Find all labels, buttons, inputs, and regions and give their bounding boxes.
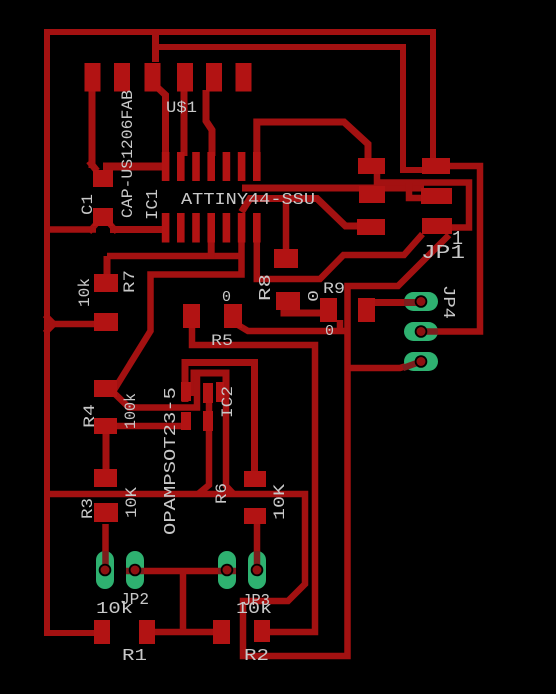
wire IC2 pad to mid rail elbow bbox=[198, 400, 210, 495]
wire C1 top pad to IC1 pin1 bbox=[103, 163, 167, 171]
wire R4 bottom to R3 top bbox=[103, 434, 110, 469]
connector JP4 pad3 bbox=[404, 352, 438, 371]
svg-text:R2: R2 bbox=[244, 647, 269, 666]
wire JP1 top-left pad around to bottom-right pad bbox=[377, 172, 469, 228]
svg-text:R3: R3 bbox=[79, 498, 97, 519]
pad IC2 pin4 bbox=[181, 412, 191, 430]
svg-text:R9: R9 bbox=[323, 280, 345, 298]
pad IC2 pin2 bbox=[203, 383, 213, 403]
pad U$1 pin3 bbox=[145, 63, 161, 92]
svg-text:R1: R1 bbox=[122, 647, 147, 666]
wire branch to JP4 pin3 bbox=[347, 362, 421, 369]
pad U$1 pin5 bbox=[206, 63, 222, 92]
svg-text:0: 0 bbox=[325, 323, 334, 340]
resistor R6 top pad bbox=[244, 471, 266, 487]
pad U$1 pin4 bbox=[177, 63, 193, 92]
svg-text:10k: 10k bbox=[76, 278, 94, 307]
svg-text:R4: R4 bbox=[81, 404, 99, 428]
drill JP2 pad2 bbox=[129, 564, 142, 577]
pad IC1 pin12 (bottom row) bbox=[192, 213, 200, 243]
resistor R2 left pad bbox=[213, 620, 230, 644]
svg-text:1: 1 bbox=[452, 228, 463, 250]
resistor R1 right pad bbox=[139, 620, 155, 644]
wire R3 bottom to JP2 pin1 bbox=[102, 524, 109, 570]
svg-text:R6: R6 bbox=[213, 483, 231, 504]
wire into JP3 pad2 bbox=[254, 551, 261, 570]
pad JP1 middle-left bbox=[359, 186, 385, 203]
wire U$1 pad4 down to IC1 pin2 bbox=[181, 90, 188, 156]
resistor R8 top pad bbox=[274, 249, 298, 268]
svg-text:C1: C1 bbox=[79, 194, 97, 215]
connector JP3 pad2 bbox=[248, 551, 266, 589]
pad IC1 pin13 (bottom row) bbox=[177, 213, 185, 243]
wire IC1 pin8 up over to JP1 top-left pad bbox=[257, 122, 368, 160]
pad IC1 pin14 (bottom row) bbox=[162, 213, 170, 243]
wire flare C1 bottom pad left bbox=[89, 223, 97, 232]
resistor R7 top pad bbox=[94, 274, 118, 292]
wire from U$1 pad3 down to header row bbox=[152, 30, 159, 62]
pad IC1 pin9 (bottom row) bbox=[238, 213, 246, 243]
wire R7 top stub bbox=[104, 256, 111, 274]
wire U$1 pad3 down to IC1 pin1 bbox=[158, 88, 166, 156]
drill JP3 pad1 bbox=[221, 564, 234, 577]
svg-text:JP4: JP4 bbox=[438, 285, 457, 319]
wire into JP2 pad2 bbox=[126, 568, 144, 575]
wire IC2 right pad down to mid rail elbow bbox=[226, 380, 233, 494]
pad IC1 pin1 (top row) bbox=[162, 152, 170, 181]
wire R6 bottom to JP3 pin2 bbox=[254, 524, 261, 570]
pad IC1 pin5 (top row) bbox=[223, 152, 231, 181]
svg-text:U$1: U$1 bbox=[166, 99, 197, 117]
wire flare C1 bottom pad right bbox=[109, 223, 117, 232]
resistor R1 left pad bbox=[94, 620, 110, 644]
wire IC1 pin13 route to JP1 bottom-left pad bbox=[242, 199, 361, 227]
wire JP2 pin2 to JP3 pin1 bbox=[135, 568, 227, 575]
resistor R9 left pad bbox=[320, 298, 337, 322]
wire U$1 pad1 down to C1 top pad bbox=[89, 76, 96, 168]
drill JP2 pad1 bbox=[99, 564, 112, 577]
connector JP4 pad1 bbox=[404, 292, 438, 311]
pad U$1 pin6 bbox=[236, 63, 252, 92]
drill JP4 pad1 bbox=[415, 295, 428, 308]
resistor R4 top pad bbox=[94, 380, 117, 397]
svg-text:IC1: IC1 bbox=[144, 189, 163, 220]
pad JP1 pin1 top-right bbox=[422, 158, 450, 174]
resistor R3 top pad bbox=[94, 469, 117, 487]
wire into JP4 pad3 bbox=[403, 362, 421, 369]
wire JP4 pin2 up to JP1 top-right pad bbox=[421, 166, 480, 332]
resistor R5 right pad bbox=[224, 304, 242, 328]
resistor R6 bottom pad bbox=[244, 508, 266, 524]
capacitor C1 top pad bbox=[93, 170, 113, 187]
pad IC2 pin1 bbox=[181, 382, 191, 401]
wire R4 top pad up to IC1 pin9 bbox=[114, 242, 242, 390]
wire IC2 left pad up over and down to R6 top pad bbox=[185, 363, 255, 476]
svg-text:10k: 10k bbox=[96, 600, 133, 619]
svg-text:R7: R7 bbox=[121, 270, 139, 293]
resistor R7 bottom pad bbox=[94, 313, 118, 331]
wire R4 top pad right to IC2 bbox=[113, 376, 197, 408]
wire R7 to IC1 pin11 riser bbox=[107, 253, 240, 260]
wire flare at border Y junction lower bbox=[45, 324, 54, 333]
resistor R9 right pad bbox=[358, 298, 375, 322]
pad IC2 pin3 bbox=[216, 382, 224, 402]
connector JP4 pad2 bbox=[404, 322, 438, 341]
connector JP2 pad1 bbox=[96, 551, 114, 589]
svg-text:ATTINY44-SSU: ATTINY44-SSU bbox=[181, 191, 315, 210]
svg-text:IC2: IC2 bbox=[219, 386, 237, 418]
pad IC1 pin6 (top row) bbox=[238, 152, 246, 181]
wire into JP3 pad1 bbox=[218, 568, 236, 575]
resistor R2 right pad bbox=[254, 620, 270, 642]
wire R5 left pad down to long rail, down around to R2 right pad bbox=[192, 326, 315, 632]
wire border branch to R7 bottom pad bbox=[47, 321, 96, 328]
pad IC1 pin2 (top row) bbox=[177, 152, 185, 181]
connector JP2 pad2 bbox=[126, 551, 144, 589]
pad JP1 middle-right bbox=[421, 188, 452, 204]
wire VCC border: top rail, left rail, bottom to R1 bbox=[47, 32, 433, 633]
resistor R8 bottom pad bbox=[276, 292, 300, 310]
wire R5 right pad elbow to R9 node bbox=[238, 325, 348, 331]
wire U$1 pad5 down with jog to IC1 pin4 bbox=[206, 90, 212, 156]
pad JP1 bottom-right bbox=[422, 218, 452, 234]
pad IC2 pin5 bbox=[203, 411, 213, 431]
svg-text:R8: R8 bbox=[257, 274, 276, 301]
wire flare at border Y junction upper bbox=[45, 315, 54, 324]
svg-text:100k: 100k bbox=[122, 393, 140, 429]
wire H2 from U$1 pad3 junction right and down to JP1 top-right pad bbox=[152, 47, 424, 170]
drill JP4 pad3 bbox=[415, 355, 428, 368]
wire IC1 pin8 down and across to JP1 bottom-right pad bbox=[257, 234, 423, 279]
wire into JP2 pad1 bbox=[102, 551, 109, 570]
wire into JP4 pad1 bbox=[404, 299, 421, 306]
drill JP4 pad2 bbox=[415, 325, 428, 338]
wire R8 bottom to R9 left pad bbox=[284, 306, 322, 313]
resistor R5 left pad bbox=[183, 304, 200, 328]
capacitor C1 bottom pad bbox=[93, 208, 113, 226]
pad IC1 pin11 (bottom row) bbox=[207, 213, 215, 243]
wire C1 bottom pad left to border bbox=[47, 226, 96, 233]
drill JP3 pad2 bbox=[251, 564, 264, 577]
pad IC1 pin3 (top row) bbox=[192, 152, 200, 181]
svg-text:10K: 10K bbox=[271, 484, 289, 520]
pad IC1 pin8 (bottom row) bbox=[253, 213, 261, 243]
wire branch to JP1 middle-right pad bbox=[409, 183, 421, 199]
svg-text:0: 0 bbox=[306, 290, 323, 302]
wire C1 bottom pad right to IC1 pin14 bbox=[110, 226, 164, 233]
wire R9 left pad stub down bbox=[337, 320, 344, 332]
wire junction down from JP2/JP3 link bbox=[180, 571, 187, 632]
pad IC1 pin7 (top row) bbox=[253, 152, 261, 181]
wire R9 right pad to JP4 pin1 bbox=[373, 299, 421, 306]
pad IC1 pin10 (bottom row) bbox=[223, 213, 231, 243]
pad JP1 bottom-left bbox=[357, 219, 385, 235]
wire R1 right pad to R2 left pad bbox=[150, 629, 216, 636]
wire IC2 arch bbox=[194, 373, 226, 398]
wire branch down to R8 top pad bbox=[283, 195, 290, 252]
svg-text:10K: 10K bbox=[123, 487, 141, 518]
svg-text:OPAMPSOT23-5: OPAMPSOT23-5 bbox=[162, 387, 181, 535]
svg-text:R5: R5 bbox=[211, 332, 233, 350]
svg-text:10k: 10k bbox=[236, 600, 272, 619]
connector JP3 pad1 bbox=[218, 551, 236, 589]
wire R4 bottom pad to IC2 lower-left pad bbox=[117, 423, 183, 430]
pad IC1 pin4 (top row) bbox=[207, 152, 215, 181]
resistor R4 bottom pad bbox=[94, 418, 117, 434]
pad U$1 pin2 bbox=[114, 63, 130, 92]
wire long net: JP1 bottom-right, down around R2, up to mid rail bbox=[49, 235, 449, 656]
wire flare U$1 pad1 feeder into C1 bbox=[89, 161, 97, 171]
wire IC1 pin12 to JP1 middle-left pad bbox=[242, 185, 424, 192]
pad U$1 pin1 bbox=[85, 63, 101, 92]
svg-text:0: 0 bbox=[222, 289, 231, 306]
wire IC1 pin11 riser bbox=[208, 242, 215, 259]
svg-text:CAP-US1206FAB: CAP-US1206FAB bbox=[119, 90, 137, 218]
resistor R3 bottom pad bbox=[94, 503, 118, 522]
pad JP1 top-left bbox=[358, 158, 385, 174]
wire into JP4 pad2 bbox=[421, 328, 438, 335]
